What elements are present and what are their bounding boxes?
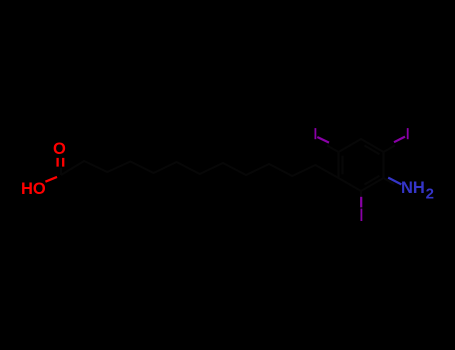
iodine top-right: I label [407,128,409,139]
iodine top-right: bond [394,137,405,143]
faint black skeleton: benzene ring [339,139,384,191]
amine bond (blue) [388,178,401,185]
svg-text:2: 2 [426,186,434,203]
iodine bottom: bond [360,197,362,208]
carboxyl C=O double bond (red) [58,158,64,167]
svg-text:O: O [53,140,66,158]
iodine top-left: I label [315,128,317,139]
HO-C bond (red) [45,177,57,182]
iodine top-left: bond [317,137,329,143]
svg-text:HO: HO [21,180,46,198]
faint black halves of hetero bonds [327,146,395,203]
faint black skeleton: aliphatic chain [61,161,339,178]
iodine bottom: I label [361,209,363,221]
svg-text:NH: NH [401,179,425,197]
